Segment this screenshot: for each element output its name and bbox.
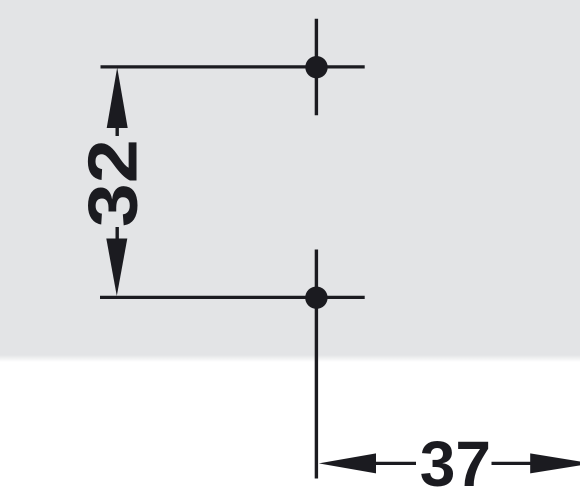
arrow down (dim 32) [106, 239, 127, 297]
svg-text:37: 37 [420, 428, 491, 500]
node A: hole A (drill point) [305, 56, 327, 78]
node B: hole B (drill point) [305, 287, 327, 309]
wire: hole A centerline vertical [315, 19, 318, 116]
panel face (grey board surface) [0, 0, 580, 355]
panel face lower soft edge [0, 355, 580, 362]
wire: dim 32 upper stub [115, 127, 118, 136]
panel front edge (white) [0, 362, 580, 500]
arrow right (dim 37) [530, 453, 580, 473]
wire: dim 37 left segment [374, 462, 416, 465]
wire: hole B centerline vertical [315, 250, 318, 479]
wire: hole A centerline horizontal [101, 65, 365, 68]
wire: dim 37 right segment [492, 462, 533, 465]
arrow left (dim 37) [319, 453, 376, 473]
arrow up (dim 32) [107, 68, 128, 129]
wire: dim 32 lower stub [115, 227, 118, 240]
svg-text:32: 32 [74, 139, 152, 227]
wire: hole B centerline horizontal [100, 296, 365, 299]
